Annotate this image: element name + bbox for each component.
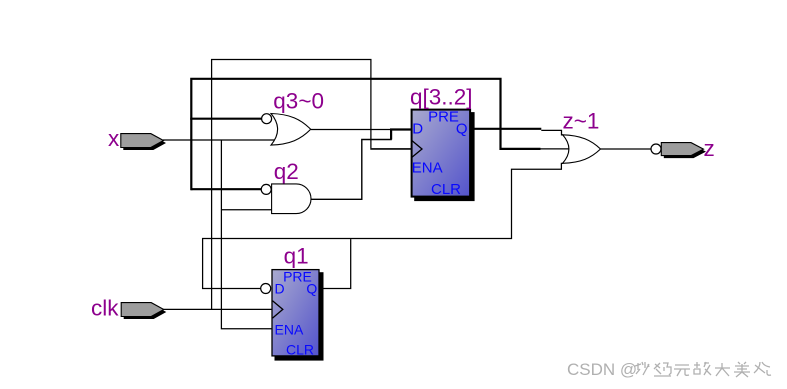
node label q[3..2] bbox=[410, 84, 473, 109]
svg-text:CLR: CLR bbox=[286, 342, 314, 358]
svg-text:Q: Q bbox=[456, 121, 468, 138]
dff q[3..2] shadow bbox=[414, 112, 474, 201]
wire q3~0 output to D bbox=[311, 129, 391, 131]
svg-text:clk: clk bbox=[91, 296, 119, 321]
wire q1 feedback loop to inverted D bbox=[203, 163, 564, 288]
dff q[3..2] label CLR bbox=[431, 181, 461, 198]
bus q[3..2] Q output (thick) bbox=[470, 128, 541, 130]
node label q1 bbox=[284, 244, 309, 269]
bus D input stub of q[3..2] (thick) bbox=[391, 130, 411, 140]
bubble inverted input of q2 bbox=[261, 184, 271, 194]
svg-text:Q: Q bbox=[306, 280, 317, 296]
svg-text:PRE: PRE bbox=[428, 109, 459, 126]
dff q1 pin Q bbox=[306, 280, 317, 296]
or-gate q3~0 bbox=[271, 114, 311, 146]
dff q[3..2] label ENA bbox=[412, 159, 443, 176]
dff q1 label ENA bbox=[275, 321, 304, 337]
dff q[3..2] clock triangle bbox=[412, 140, 423, 157]
wire x input horizontal bbox=[163, 139, 275, 141]
input pin clk bbox=[121, 303, 164, 317]
node label q2 bbox=[274, 159, 299, 184]
watermark CSDN bbox=[567, 360, 637, 380]
wire q3 tap to or-gate z~1 top input bbox=[541, 130, 563, 135]
dff q1 body bbox=[272, 270, 319, 356]
wire q2 output to D merge bbox=[311, 140, 392, 200]
bubble inverted output at pin z bbox=[651, 144, 661, 154]
svg-text:D: D bbox=[275, 280, 285, 296]
dff q[3..2] pin Q bbox=[456, 121, 468, 138]
node label q3~0 bbox=[273, 88, 324, 113]
svg-text:CLR: CLR bbox=[431, 181, 461, 198]
input pin x bbox=[121, 134, 164, 148]
output pin z shadow bbox=[664, 145, 706, 158]
dff q[3..2] label PRE bbox=[428, 109, 459, 126]
svg-text:ENA: ENA bbox=[412, 159, 443, 176]
wire q1 Q output to feedback rail bbox=[319, 239, 351, 288]
dff q1 label CLR bbox=[286, 342, 314, 358]
svg-text:q3~0: q3~0 bbox=[273, 88, 324, 113]
svg-text:x: x bbox=[108, 126, 120, 151]
wire clk vertical rail x=211.6 bbox=[212, 60, 411, 310]
svg-text:q2: q2 bbox=[274, 159, 299, 184]
wire q2 bottom input bbox=[221, 209, 271, 211]
dff q1 shadow bbox=[275, 272, 324, 360]
svg-text:q1: q1 bbox=[284, 244, 309, 269]
svg-text:z~1: z~1 bbox=[563, 108, 600, 133]
input pin x shadow bbox=[123, 136, 166, 150]
or-gate z~1 bbox=[563, 135, 601, 164]
svg-text:z: z bbox=[704, 136, 715, 161]
dff q[3..2] pin D bbox=[412, 120, 423, 137]
node label x bbox=[108, 126, 120, 151]
wire x branch vertical to q2 and q1 ENA bbox=[221, 140, 271, 329]
wire z~1 output to pin z bbox=[601, 148, 652, 150]
bus q[3..2] feedback left rail (thick) bbox=[191, 79, 540, 149]
and-gate q2 bbox=[272, 184, 311, 214]
output pin z bbox=[661, 143, 703, 156]
svg-text:ENA: ENA bbox=[275, 321, 304, 337]
bubble inverted input of q3~0 bbox=[262, 114, 272, 124]
bus tap to and-gate q2 bubble (thick) bbox=[191, 118, 261, 191]
dff q1 label PRE bbox=[283, 269, 312, 285]
bubble inverted D input of q1 bbox=[261, 284, 271, 294]
watermark chinese characters (drawn strokes) bbox=[634, 360, 782, 379]
wire clk input horizontal bbox=[163, 308, 272, 310]
svg-text:q[3..2]: q[3..2] bbox=[410, 84, 473, 109]
dff q1 clock triangle bbox=[273, 301, 283, 318]
input pin clk shadow bbox=[124, 305, 167, 319]
wire q2 tap to or-gate z~1 middle input bbox=[541, 148, 570, 150]
svg-text:D: D bbox=[412, 120, 423, 137]
dff q1 pin D bbox=[275, 280, 285, 296]
dff q[3..2] body bbox=[412, 110, 471, 197]
node label z bbox=[704, 136, 715, 161]
node label z~1 bbox=[563, 108, 600, 133]
node label clk bbox=[91, 296, 119, 321]
